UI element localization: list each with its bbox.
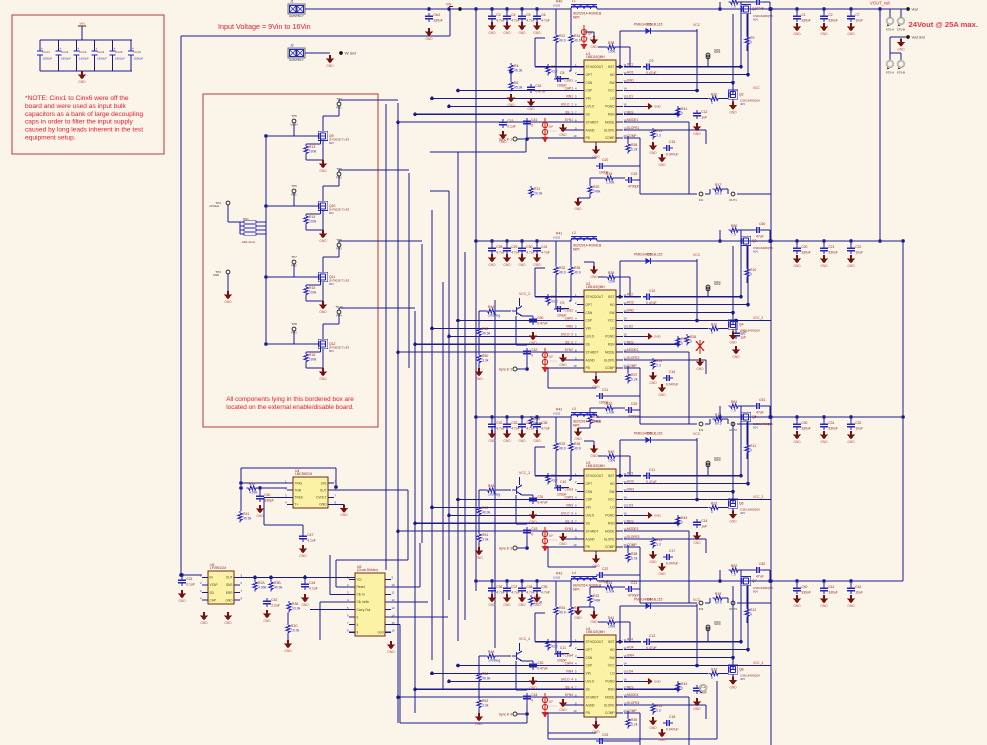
svg-text:675-A: 675-A — [886, 71, 894, 75]
svg-text:150k: 150k — [608, 280, 616, 284]
svg-text:AGND: AGND — [586, 358, 596, 362]
svg-text:R50: R50 — [482, 672, 488, 676]
svg-text:100Meg: 100Meg — [488, 493, 500, 497]
svg-text:47uF: 47uF — [756, 6, 764, 10]
svg-text:R37: R37 — [249, 482, 255, 486]
svg-text:330uF: 330uF — [801, 251, 811, 255]
svg-text:0.002: 0.002 — [553, 4, 561, 8]
svg-text:C62: C62 — [759, 562, 765, 566]
svg-text:100k: 100k — [309, 220, 317, 224]
svg-text:TP8: TP8 — [291, 322, 297, 326]
svg-text:GND: GND — [590, 275, 598, 279]
svg-text:10uF: 10uF — [855, 427, 863, 431]
svg-text:C42: C42 — [271, 598, 277, 602]
svg-text:L2: L2 — [572, 231, 576, 235]
svg-text:MODE2: MODE2 — [627, 348, 639, 352]
svg-text:R19: R19 — [715, 592, 721, 596]
svg-text:RES: RES — [627, 685, 634, 689]
svg-text:VIN: VIN — [586, 327, 592, 331]
svg-text:1uF: 1uF — [740, 336, 746, 340]
svg-text:GND: GND — [793, 604, 801, 608]
svg-text:VOUT_rail: VOUT_rail — [870, 1, 890, 6]
svg-text:0.047uF: 0.047uF — [666, 561, 678, 565]
svg-text:R12: R12 — [711, 501, 717, 505]
svg-text:HO: HO — [610, 73, 615, 77]
svg-text:Cin0: Cin0 — [433, 13, 440, 17]
svg-text:C35: C35 — [541, 421, 547, 425]
svg-text:C16: C16 — [535, 84, 541, 88]
svg-text:GND: GND — [696, 367, 704, 371]
svg-text:NiPt: NiPt — [573, 16, 579, 20]
svg-text:GND: GND — [793, 32, 801, 36]
svg-text:GND: GND — [529, 686, 537, 690]
svg-text:SD: SD — [210, 591, 215, 595]
svg-text:C20: C20 — [801, 245, 807, 249]
svg-text:R14: R14 — [656, 359, 662, 363]
svg-text:C15: C15 — [669, 140, 675, 144]
svg-text:330uF: 330uF — [801, 591, 811, 595]
svg-text:7.5: 7.5 — [731, 573, 736, 577]
svg-text:Clk In: Clk In — [357, 593, 365, 597]
svg-text:GND: GND — [387, 650, 395, 654]
svg-text:R37: R37 — [574, 606, 580, 610]
svg-text:R16: R16 — [656, 704, 662, 708]
svg-text:C12: C12 — [701, 110, 707, 114]
svg-text:R37: R37 — [631, 373, 637, 377]
svg-text:R10: R10 — [711, 92, 717, 96]
svg-text:0.047uF: 0.047uF — [666, 382, 678, 386]
svg-text:L3: L3 — [572, 407, 576, 411]
svg-text:R3B: R3B — [274, 581, 281, 585]
svg-text:LM5119QMH: LM5119QMH — [586, 285, 605, 289]
svg-text:STHCDOUT: STHCDOUT — [586, 295, 604, 299]
svg-text:150k: 150k — [608, 459, 616, 463]
svg-text:R7: R7 — [551, 65, 555, 69]
svg-text:R33: R33 — [559, 442, 565, 446]
svg-text:60V: 60V — [329, 282, 334, 286]
svg-text:SW: SW — [609, 656, 614, 660]
svg-text:R49: R49 — [482, 506, 488, 510]
svg-text:GND: GND — [178, 599, 186, 603]
svg-text:60V: 60V — [329, 349, 334, 353]
svg-text:6.2k: 6.2k — [631, 148, 638, 152]
svg-text:GND: GND — [574, 616, 582, 620]
svg-text:1.00k: 1.00k — [606, 590, 615, 594]
svg-text:C5: C5 — [526, 13, 530, 17]
svg-text:C19: C19 — [631, 172, 637, 176]
svg-text:330uF: 330uF — [801, 427, 811, 431]
svg-text:PGND: PGND — [605, 335, 615, 339]
svg-text:SLOPE1: SLOPE1 — [627, 126, 640, 130]
svg-text:Reset: Reset — [357, 585, 365, 589]
svg-text:6.2k: 6.2k — [631, 723, 638, 727]
svg-text:GND: GND — [507, 103, 515, 107]
svg-text:C43: C43 — [531, 527, 537, 531]
svg-text:PGND: PGND — [605, 105, 615, 109]
svg-text:L4: L4 — [572, 571, 576, 575]
svg-text:C18: C18 — [669, 715, 675, 719]
svg-text:VCC_2: VCC_2 — [519, 292, 530, 296]
svg-text:PB: PB — [586, 366, 590, 370]
svg-text:C31: C31 — [186, 577, 192, 581]
svg-text:Cinx3: Cinx3 — [79, 50, 87, 54]
svg-text:VIN4: VIN4 — [566, 669, 573, 673]
svg-text:GND: GND — [503, 31, 511, 35]
svg-text:1800uF: 1800uF — [79, 57, 89, 61]
svg-text:HO2: HO2 — [627, 301, 634, 305]
svg-text:0.002: 0.002 — [553, 412, 561, 416]
svg-text:0.047uF: 0.047uF — [666, 727, 678, 731]
svg-text:C61: C61 — [759, 398, 765, 402]
svg-text:0: 0 — [681, 521, 683, 525]
svg-text:675-A: 675-A — [886, 28, 894, 32]
svg-text:GND: GND — [847, 604, 855, 608]
svg-text:R31: R31 — [559, 34, 565, 38]
svg-text:GND: GND — [574, 437, 582, 441]
svg-text:16: 16 — [392, 628, 396, 632]
svg-text:C22: C22 — [855, 245, 861, 249]
svg-text:UVLO_4: UVLO_4 — [561, 677, 573, 681]
svg-text:R35: R35 — [574, 266, 580, 270]
svg-text:STHRDT: STHRDT — [586, 120, 599, 124]
svg-text:R11: R11 — [750, 444, 756, 448]
svg-text:45.3k: 45.3k — [514, 69, 523, 73]
svg-text:49.9: 49.9 — [559, 447, 566, 451]
svg-text:GND: GND — [820, 604, 828, 608]
svg-text:CSG2: CSG2 — [564, 309, 573, 313]
svg-text:Q2: Q2 — [739, 93, 744, 97]
svg-text:VCC: VCC — [753, 86, 760, 90]
svg-text:C10: C10 — [560, 480, 566, 484]
svg-text:All components lying in this b: All components lying in this bordered bo… — [226, 396, 354, 403]
svg-text:C8: C8 — [560, 71, 564, 75]
svg-text:GND: GND — [693, 132, 701, 136]
svg-text:STHRDT: STHRDT — [586, 350, 599, 354]
svg-text:LO: LO — [610, 506, 615, 510]
svg-text:LMC555CM: LMC555CM — [295, 472, 312, 476]
svg-text:C30: C30 — [537, 316, 543, 320]
svg-text:60V: 60V — [753, 18, 758, 22]
svg-text:R34: R34 — [559, 606, 565, 610]
svg-text:1800uF: 1800uF — [134, 57, 144, 61]
svg-text:GND: GND — [658, 393, 666, 397]
svg-text:SS_2: SS_2 — [565, 340, 573, 344]
svg-text:GND: GND — [319, 169, 327, 173]
svg-text:T+: T+ — [295, 503, 299, 507]
svg-text:GND: GND — [820, 32, 828, 36]
svg-text:4.7uF: 4.7uF — [541, 427, 550, 431]
svg-text:CSP: CSP — [586, 89, 593, 93]
svg-text:330uF: 330uF — [801, 19, 811, 23]
svg-text:330uF: 330uF — [828, 591, 838, 595]
svg-text:C23: C23 — [602, 733, 608, 737]
svg-text:SYN4: SYN4 — [565, 693, 574, 697]
svg-text:NiPt: NiPt — [573, 588, 579, 592]
svg-text:SW1: SW1 — [627, 79, 634, 83]
svg-text:49.9: 49.9 — [574, 447, 581, 451]
svg-text:Sync in 2: Sync in 2 — [499, 368, 512, 372]
svg-text:caps in order to filter the in: caps in order to filter the input supply — [25, 119, 133, 126]
svg-text:LO2: LO2 — [627, 324, 633, 328]
svg-text:VIN: VIN — [79, 22, 84, 26]
svg-text:VCC: VCC — [693, 253, 701, 257]
svg-text:R13: R13 — [309, 145, 315, 149]
svg-text:40V: 40V — [740, 677, 745, 681]
svg-text:49.9: 49.9 — [574, 39, 581, 43]
svg-text:Vcc: Vcc — [357, 578, 363, 582]
svg-text:VIN: VIN — [586, 506, 592, 510]
svg-text:Cinx1: Cinx1 — [43, 50, 51, 54]
svg-text:1.00k: 1.00k — [606, 181, 615, 185]
svg-text:GND: GND — [820, 440, 828, 444]
svg-text:SS: SS — [586, 342, 590, 346]
svg-text:OPT: OPT — [586, 482, 593, 486]
svg-text:Vin Gnd: Vin Gnd — [345, 52, 357, 56]
svg-text:VIN1: VIN1 — [566, 94, 573, 98]
svg-text:SLOPE: SLOPE — [604, 537, 615, 541]
svg-text:CSG1: CSG1 — [564, 79, 573, 83]
svg-text:PMEG4005EB,115: PMEG4005EB,115 — [634, 432, 663, 436]
svg-text:GND: GND — [649, 560, 657, 564]
svg-text:TRIG: TRIG — [295, 481, 303, 485]
svg-text:60V: 60V — [329, 141, 334, 145]
svg-text:49.9: 49.9 — [574, 611, 581, 615]
svg-text:GND: GND — [225, 598, 233, 602]
svg-text:7.5: 7.5 — [731, 5, 736, 9]
svg-text:GND: GND — [732, 355, 740, 359]
svg-text:GND: GND — [301, 603, 309, 607]
svg-text:LO: LO — [610, 97, 615, 101]
svg-text:40V: 40V — [740, 511, 745, 515]
svg-text:Carry Out: Carry Out — [357, 608, 371, 612]
svg-text:SS_1: SS_1 — [565, 110, 573, 114]
svg-text:R41: R41 — [243, 512, 249, 516]
svg-text:GND: GND — [518, 263, 526, 267]
svg-text:VIN: VIN — [446, 3, 452, 7]
svg-text:R39: R39 — [631, 718, 637, 722]
svg-text:Q7: Q7 — [752, 579, 757, 583]
svg-text:Cinx6: Cinx6 — [134, 50, 142, 54]
svg-text:GND: GND — [518, 439, 526, 443]
svg-text:SYN1: SYN1 — [565, 118, 574, 122]
svg-text:caused by long leads inherent: caused by long leads inherent in the tes… — [25, 127, 143, 134]
svg-text:100k: 100k — [309, 358, 317, 362]
svg-text:3.3: 3.3 — [656, 134, 661, 138]
svg-text:SLOPE4: SLOPE4 — [627, 701, 640, 705]
svg-text:49.9k: 49.9k — [482, 511, 491, 515]
svg-text:GND: GND — [488, 31, 496, 35]
svg-text:GND: GND — [729, 685, 737, 689]
svg-text:equipment setup.: equipment setup. — [25, 135, 76, 142]
svg-text:GND: GND — [559, 133, 567, 137]
svg-text:C14: C14 — [701, 519, 707, 523]
svg-text:L1: L1 — [572, 0, 576, 3]
svg-text:OUT: OUT — [226, 576, 233, 580]
svg-text:STHRDT: STHRDT — [586, 529, 599, 533]
svg-text:R2A: R2A — [258, 581, 265, 585]
svg-text:SLOPE: SLOPE — [604, 358, 615, 362]
svg-text:SW4: SW4 — [627, 654, 634, 658]
svg-text:COMP: COMP — [605, 545, 615, 549]
svg-text:IN3: IN3 — [699, 607, 704, 611]
svg-text:10.0k: 10.0k — [292, 607, 301, 611]
svg-text:7.5: 7.5 — [731, 233, 736, 237]
svg-text:GND: GND — [529, 341, 537, 345]
svg-text:CSN: CSN — [586, 311, 593, 315]
svg-text:LM5119QMH: LM5119QMH — [586, 55, 605, 59]
svg-text:10uF: 10uF — [855, 591, 863, 595]
svg-text:R26: R26 — [690, 335, 696, 339]
svg-text:R36: R36 — [574, 442, 580, 446]
svg-text:R3C: R3C — [291, 624, 298, 628]
svg-text:PGND: PGND — [605, 680, 615, 684]
svg-text:R38: R38 — [631, 552, 637, 556]
svg-text:0: 0 — [681, 112, 683, 116]
svg-text:GND: GND — [319, 377, 327, 381]
svg-text:SYN3: SYN3 — [565, 527, 574, 531]
svg-text:C11: C11 — [560, 646, 566, 650]
svg-text:R52: R52 — [482, 699, 488, 703]
svg-text:SW2: SW2 — [627, 309, 634, 313]
svg-text:Input Voltage = 9Vin to 16Vin: Input Voltage = 9Vin to 16Vin — [218, 22, 311, 31]
svg-text:C30: C30 — [801, 421, 807, 425]
svg-text:GND: GND — [533, 31, 541, 35]
svg-text:0.1uF: 0.1uF — [309, 587, 318, 591]
svg-text:100pF: 100pF — [557, 313, 567, 317]
svg-text:49.9k: 49.9k — [274, 586, 283, 590]
svg-text:located on the external enable: located on the external enable/disable b… — [226, 404, 354, 411]
svg-text:AGND: AGND — [586, 537, 596, 541]
svg-text:Vout: Vout — [912, 8, 918, 12]
svg-text:4.7uF: 4.7uF — [541, 591, 550, 595]
svg-text:0.47uF: 0.47uF — [537, 501, 548, 505]
svg-text:150k: 150k — [608, 625, 616, 629]
svg-text:Sync in 4: Sync in 4 — [499, 713, 512, 717]
svg-text:C32: C32 — [537, 661, 543, 665]
svg-text:SLOPE: SLOPE — [604, 128, 615, 132]
svg-text:0.002: 0.002 — [553, 576, 561, 580]
svg-text:0: 0 — [531, 533, 533, 537]
svg-text:0.47uF: 0.47uF — [537, 667, 548, 671]
svg-text:C31: C31 — [537, 495, 543, 499]
svg-text:GND: GND — [319, 310, 327, 314]
svg-text:GND: GND — [284, 649, 292, 653]
svg-text:C10: C10 — [649, 289, 655, 293]
svg-text:40V: 40V — [740, 102, 745, 106]
svg-text:60V: 60V — [753, 590, 758, 594]
svg-text:0: 0 — [681, 687, 683, 691]
svg-text:SW: SW — [609, 490, 614, 494]
svg-text:40V: 40V — [740, 332, 745, 336]
svg-text:VCC_2: VCC_2 — [753, 316, 764, 320]
svg-text:0: 0 — [750, 449, 752, 453]
svg-text:C36: C36 — [496, 585, 502, 589]
svg-text:PMEG4005EB,115: PMEG4005EB,115 — [634, 253, 663, 257]
svg-text:GND: GND — [488, 439, 496, 443]
svg-text:R22: R22 — [593, 594, 599, 598]
svg-text:GND: GND — [590, 454, 598, 458]
svg-text:(DNP): (DNP) — [549, 538, 557, 542]
svg-text:VIN: VIN — [586, 97, 592, 101]
svg-text:Clk Inhib: Clk Inhib — [357, 600, 370, 604]
svg-text:1800uF: 1800uF — [115, 57, 125, 61]
svg-text:PB: PB — [586, 136, 590, 140]
svg-text:0.1uF: 0.1uF — [186, 583, 195, 587]
svg-text:GND: GND — [425, 37, 433, 41]
svg-text:J2: J2 — [290, 44, 294, 48]
svg-text:3.0k: 3.0k — [482, 538, 489, 542]
svg-text:49.9k: 49.9k — [482, 677, 491, 681]
svg-text:C30: C30 — [526, 245, 532, 249]
svg-text:0: 0 — [357, 615, 359, 619]
svg-text:SNS: SNS — [226, 583, 233, 587]
svg-text:GND: GND — [340, 513, 348, 517]
svg-text:GND: GND — [658, 738, 666, 742]
svg-text:C29: C29 — [511, 245, 517, 249]
svg-text:Vout Gnd: Vout Gnd — [912, 36, 926, 40]
svg-text:249k: 249k — [593, 190, 601, 194]
svg-text:Cinx2: Cinx2 — [61, 50, 69, 54]
svg-text:C38: C38 — [526, 585, 532, 589]
svg-text:0: 0 — [750, 41, 752, 45]
svg-text:board and were used as input b: board and were used as input bulk — [25, 103, 127, 110]
svg-text:SS: SS — [586, 112, 590, 116]
svg-text:0: 0 — [711, 331, 713, 335]
svg-text:GND: GND — [847, 440, 855, 444]
svg-text:HO: HO — [610, 482, 615, 486]
svg-text:3.3: 3.3 — [656, 364, 661, 368]
svg-text:330uF: 330uF — [828, 251, 838, 255]
svg-text:GND: GND — [499, 140, 507, 144]
svg-text:TP7: TP7 — [291, 255, 297, 259]
svg-text:*NOTE: Cinx1 to Cinx6 were off: *NOTE: Cinx1 to Cinx6 were off the — [25, 95, 129, 102]
svg-text:GND: GND — [533, 603, 541, 607]
svg-text:R20: R20 — [593, 185, 599, 189]
svg-text:(DNP): (DNP) — [549, 359, 557, 363]
svg-text:GND: GND — [533, 439, 541, 443]
svg-text:GND: GND — [793, 264, 801, 268]
svg-text:AGND: AGND — [586, 128, 596, 132]
svg-text:100pF: 100pF — [557, 658, 567, 662]
svg-text:49.9: 49.9 — [559, 39, 566, 43]
svg-text:R44: R44 — [488, 305, 494, 309]
svg-text:GND: GND — [820, 264, 828, 268]
svg-text:330pF: 330pF — [264, 499, 274, 503]
svg-text:49.9: 49.9 — [559, 271, 566, 275]
svg-text:C17: C17 — [669, 549, 675, 553]
svg-text:GND: GND — [729, 519, 737, 523]
svg-text:LO1: LO1 — [627, 94, 633, 98]
svg-text:CSG3: CSG3 — [564, 488, 573, 492]
svg-text:GND: GND — [527, 107, 535, 111]
svg-text:UVLO_1: UVLO_1 — [561, 102, 573, 106]
svg-text:HO4: HO4 — [627, 646, 634, 650]
svg-text:R40: R40 — [608, 450, 614, 454]
svg-text:GND: GND — [793, 440, 801, 444]
svg-text:GMSTBCY: GMSTBCY — [289, 58, 304, 62]
svg-text:GND: GND — [654, 105, 662, 109]
svg-text:R20: R20 — [606, 402, 612, 406]
svg-text:47uF: 47uF — [756, 234, 764, 238]
svg-text:R43: R43 — [681, 516, 687, 520]
svg-text:Q1: Q1 — [752, 7, 757, 11]
svg-text:LO: LO — [610, 672, 615, 676]
svg-text:C37: C37 — [511, 585, 517, 589]
svg-text:GND: GND — [326, 64, 334, 68]
svg-text:LM5119QMH: LM5119QMH — [586, 464, 605, 468]
svg-text:R45: R45 — [488, 484, 494, 488]
svg-text:SS: SS — [586, 521, 590, 525]
